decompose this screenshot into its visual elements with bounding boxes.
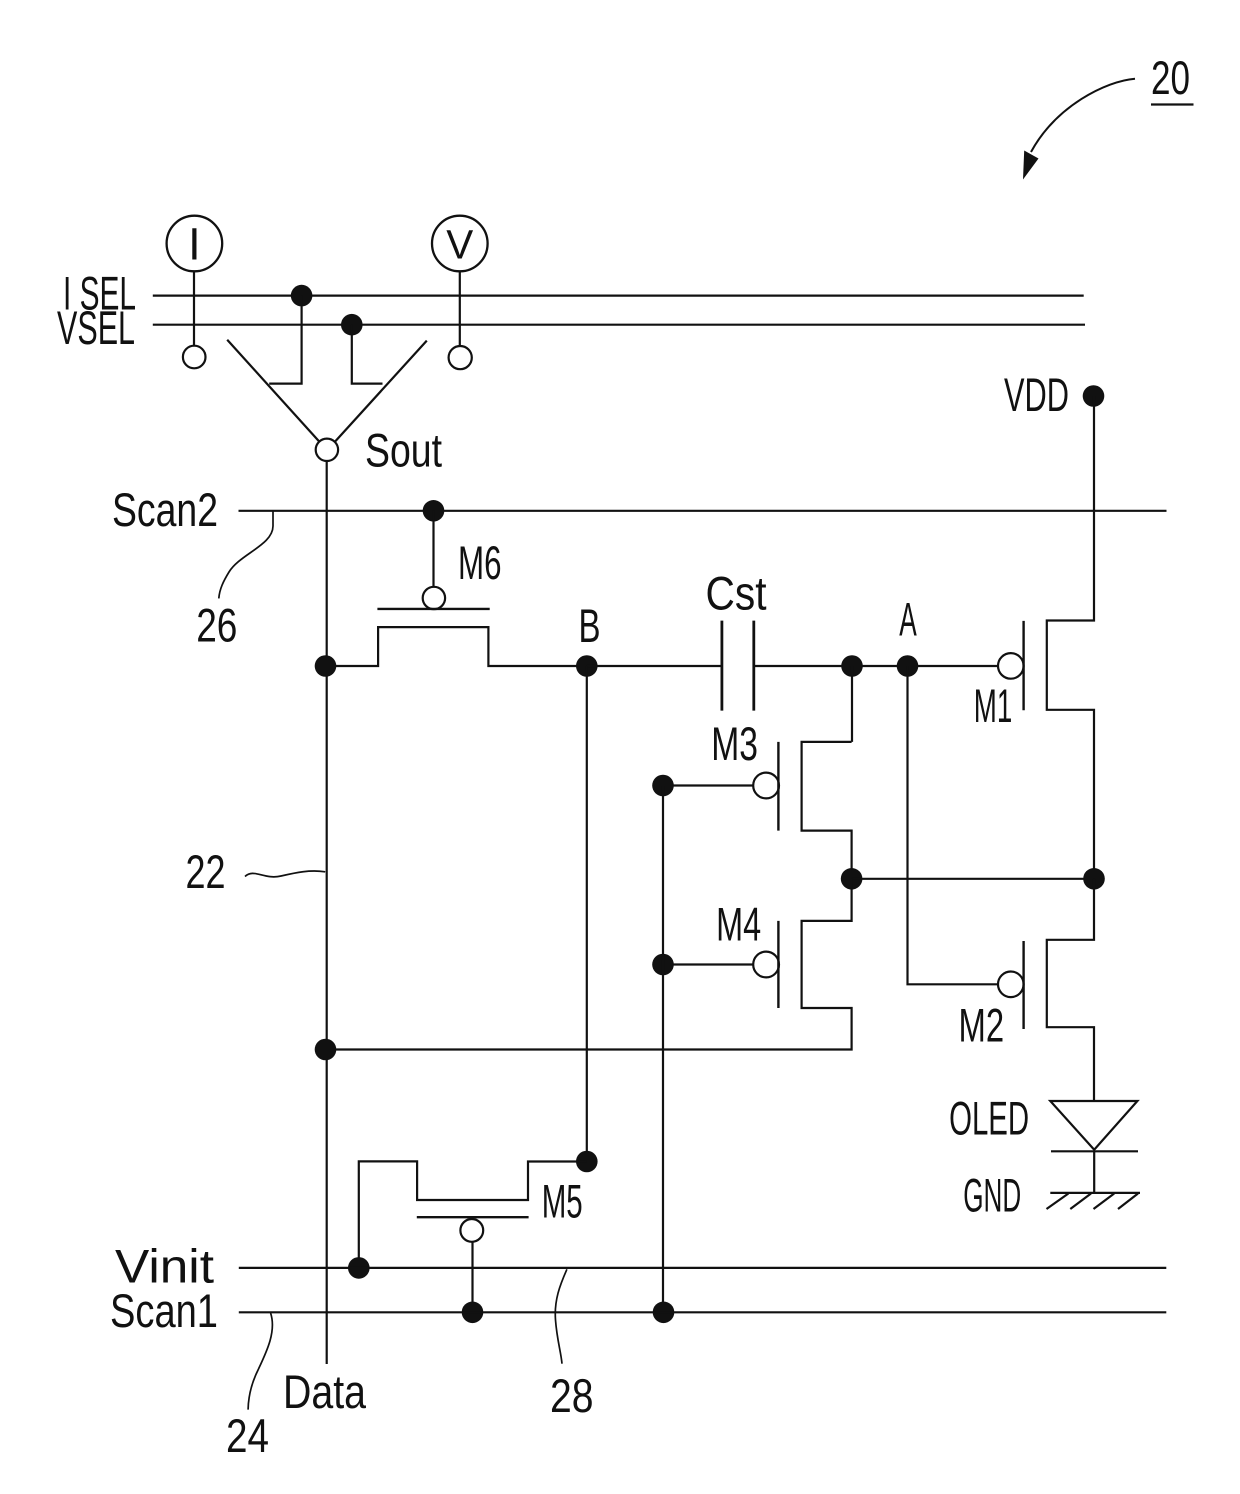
label Scan2 xyxy=(112,483,218,536)
junction dot mid M3/M4 xyxy=(841,868,863,890)
label VSEL xyxy=(57,301,135,354)
ground GND xyxy=(1050,1192,1140,1194)
svg-text:20: 20 xyxy=(1151,51,1190,104)
VDD terminal dot xyxy=(1083,385,1105,407)
wire inner step from VSEL dot xyxy=(352,325,383,384)
leader squiggle 24 xyxy=(248,1313,272,1410)
label 20 xyxy=(1151,51,1190,104)
svg-text:Cst: Cst xyxy=(706,567,767,620)
junction dot gate column on Scan1 xyxy=(653,1302,675,1324)
svg-text:24: 24 xyxy=(226,1409,269,1462)
wire Scan1 bus xyxy=(239,1311,1167,1313)
transistor M1 xyxy=(998,653,1024,679)
svg-text:Scan2: Scan2 xyxy=(112,483,218,536)
wire row B to Cst xyxy=(587,665,722,667)
label A xyxy=(899,593,917,646)
wire ammeter stem xyxy=(193,271,195,345)
svg-text:I: I xyxy=(188,219,201,270)
label 26 xyxy=(196,599,237,652)
svg-text:M6: M6 xyxy=(458,536,502,589)
svg-text:OLED: OLED xyxy=(949,1092,1029,1145)
label M3 xyxy=(711,717,758,770)
wire Sout vertical (data column) xyxy=(326,461,328,1364)
label VDD xyxy=(1004,368,1069,421)
label ISEL xyxy=(63,267,136,320)
leader squiggle 28 xyxy=(555,1269,567,1363)
ammeter I xyxy=(167,216,223,272)
wire Vinit bus xyxy=(239,1267,1167,1269)
junction dot on VSEL xyxy=(341,314,363,336)
svg-text:22: 22 xyxy=(186,845,226,898)
label M5 xyxy=(542,1175,583,1228)
junction dot M5 source on Vinit xyxy=(348,1257,370,1279)
svg-text:26: 26 xyxy=(196,599,237,652)
label M6 xyxy=(458,536,502,589)
wire mid row to rail xyxy=(852,878,1094,880)
capacitor Cst xyxy=(721,621,724,711)
svg-text:M3: M3 xyxy=(711,717,758,770)
label 28 xyxy=(550,1369,594,1422)
label M1 xyxy=(974,679,1013,732)
node B dot xyxy=(576,655,598,677)
wire inner step from ISEL dot xyxy=(269,296,301,384)
junction dot on ISEL xyxy=(291,285,313,307)
junction dot bottom row left xyxy=(315,1039,337,1061)
leader squiggle 22 xyxy=(245,871,325,877)
label Data xyxy=(283,1365,367,1418)
junction dot M6 source xyxy=(315,655,337,677)
label Scan1 xyxy=(110,1284,218,1337)
label Cst xyxy=(706,567,767,620)
svg-text:M4: M4 xyxy=(716,898,761,951)
svg-text:28: 28 xyxy=(550,1369,594,1422)
svg-text:VSEL: VSEL xyxy=(57,301,135,354)
label B xyxy=(579,599,601,652)
svg-text:GND: GND xyxy=(963,1169,1021,1222)
label Sout xyxy=(365,424,442,477)
svg-text:M1: M1 xyxy=(974,679,1013,732)
wire row Cst to M1 gate xyxy=(754,665,998,667)
leader squiggle 26 xyxy=(219,511,273,598)
svg-text:B: B xyxy=(579,599,601,652)
wire VSEL bus xyxy=(153,324,1085,326)
svg-text:VDD: VDD xyxy=(1004,368,1069,421)
transistor M2 xyxy=(998,972,1024,998)
funnel right slant xyxy=(335,341,427,442)
junction dot M5 drain xyxy=(576,1151,598,1173)
svg-text:V: V xyxy=(446,222,474,268)
transistor M6 xyxy=(432,511,434,587)
label M4 xyxy=(716,898,761,951)
svg-text:Scan1: Scan1 xyxy=(110,1284,218,1337)
label 24 xyxy=(226,1409,269,1462)
svg-text:A: A xyxy=(899,593,917,646)
wire Scan2 bus xyxy=(239,510,1167,512)
terminal circle under I xyxy=(183,346,206,369)
wire ISEL bus xyxy=(153,295,1084,297)
node Sout circle xyxy=(316,439,338,461)
wire M3/M4 gate column xyxy=(662,786,664,1313)
svg-text:Sout: Sout xyxy=(365,424,442,477)
transistor M4 xyxy=(326,879,852,1050)
svg-text:M2: M2 xyxy=(959,999,1005,1052)
leader arrow to 20 xyxy=(1031,79,1135,152)
underline of 20 xyxy=(1151,103,1194,105)
node A dot xyxy=(897,655,919,677)
junction dot on Scan2 xyxy=(423,500,445,522)
label M2 xyxy=(959,999,1005,1052)
terminal circle under V xyxy=(449,346,472,369)
diode OLED xyxy=(1050,1101,1137,1150)
label OLED xyxy=(949,1092,1029,1145)
junction dot M4 gate xyxy=(652,954,674,976)
transistor M3 xyxy=(851,666,853,742)
funnel left slant xyxy=(227,340,319,442)
junction dot right of Cst xyxy=(841,655,863,677)
junction dot M3 gate xyxy=(652,775,674,797)
svg-text:Data: Data xyxy=(283,1365,367,1418)
svg-text:M5: M5 xyxy=(542,1175,583,1228)
wire voltmeter stem xyxy=(459,271,461,346)
junction dot on rail xyxy=(1083,868,1105,890)
label GND xyxy=(963,1169,1021,1222)
label 22 xyxy=(186,845,226,898)
transistor M5 xyxy=(359,1161,587,1268)
wire node B vertical xyxy=(586,666,588,1162)
wire node A vertical to M2 gate xyxy=(908,666,999,984)
label Vinit xyxy=(115,1240,214,1293)
junction dot M5 gate on Scan1 xyxy=(462,1302,484,1324)
voltmeter V xyxy=(432,216,488,272)
